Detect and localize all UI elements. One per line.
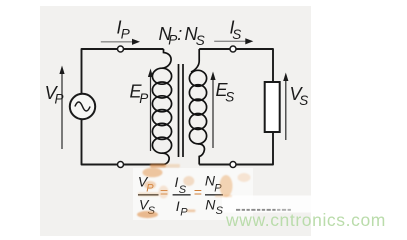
wire primary loop xyxy=(82,49,164,165)
transformer primary winding L1 xyxy=(152,49,171,165)
label IP xyxy=(117,18,130,42)
svg-text:=: = xyxy=(194,184,202,200)
white backdrop behind equation xyxy=(133,168,253,220)
white band behind faded watermark xyxy=(222,196,392,213)
label NP:NS xyxy=(159,24,205,48)
svg-text:S: S xyxy=(232,27,241,42)
node bottom-left xyxy=(118,162,124,168)
transformer secondary winding L2 xyxy=(189,49,206,165)
svg-text:www.cntronics.com: www.cntronics.com xyxy=(225,210,386,230)
arrow ES xyxy=(210,72,215,149)
node top-left xyxy=(118,46,124,52)
node top-right xyxy=(230,46,236,52)
load resistor R1 xyxy=(265,82,280,132)
svg-text:I: I xyxy=(176,198,180,214)
svg-text:P: P xyxy=(139,91,148,106)
svg-text:P: P xyxy=(55,92,64,107)
svg-text:S: S xyxy=(216,205,224,217)
arrow EP xyxy=(148,69,153,152)
arrow VP xyxy=(59,66,64,150)
arrow IP xyxy=(101,39,140,45)
faded gray watermark dashes xyxy=(236,209,291,211)
svg-text:N: N xyxy=(205,196,216,212)
arrow VS xyxy=(283,73,288,141)
orange watermark blobs xyxy=(137,164,251,218)
transformer core xyxy=(179,64,184,157)
label VP xyxy=(45,83,64,107)
node bottom-right xyxy=(230,162,236,168)
svg-text:S: S xyxy=(225,90,234,105)
label ES xyxy=(216,80,235,105)
svg-text::: : xyxy=(177,24,182,44)
label EP xyxy=(130,81,149,106)
ac source V1 xyxy=(70,94,95,119)
svg-text:P: P xyxy=(168,33,177,48)
wire secondary loop xyxy=(199,49,273,165)
equation VP/VS = IS/IP = NP/NS xyxy=(138,173,224,219)
label VS xyxy=(290,84,309,108)
svg-text:S: S xyxy=(299,93,308,108)
svg-text:P: P xyxy=(180,206,188,218)
label IS xyxy=(230,18,242,42)
arrow IS xyxy=(214,38,253,44)
svg-text:S: S xyxy=(196,33,205,48)
svg-text:P: P xyxy=(121,27,130,42)
